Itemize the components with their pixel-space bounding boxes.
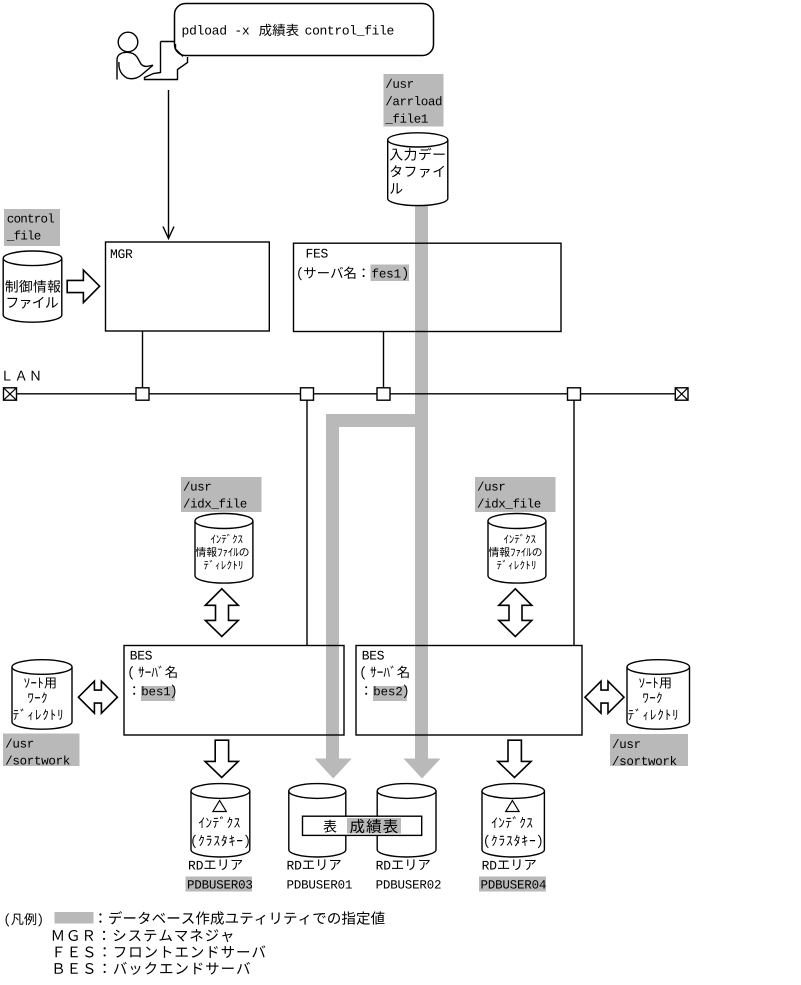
wire LAN to BES1 [306,394,308,646]
RD area label for PDBUSER03 [189,861,195,870]
double arrow idx directory <-> BES1 [205,589,238,637]
cylinder: index information file directory (right) [488,521,546,583]
cylinder: input data file [388,140,448,206]
BES1 server name text [133,686,135,695]
gray data path: vertical band from input data file down to RD area PDBUSER02 [415,206,428,759]
cylinder: sort work directory (right) [627,667,690,729]
wire LAN to BES2 [573,394,575,646]
gray highlight PDBUSER04 [479,877,546,892]
BES2 label text [363,651,369,660]
command text: seisekihyo (grade table) [259,24,271,36]
BES1 label text [131,651,137,660]
legend FES row [56,947,63,958]
RD area name PDBUSER04 [481,880,487,888]
gray label /usr/arrload_file1 [383,74,443,126]
gray highlight on seisekihyo [347,818,401,834]
sort work text (left) [24,678,29,688]
FES server name text [298,267,302,281]
double arrow idx directory <-> BES2 [499,589,532,637]
LAN tap node at FES [377,388,390,400]
cluster key triangle in RD area PDBUSER04 [506,801,519,812]
RD area name PDBUSER02 [377,880,383,888]
LAN tap node at BES1 [301,388,314,400]
cylinder: control information file [3,258,62,322]
person icon head [118,32,138,52]
LAN label [4,371,10,381]
cylinder: index information file directory (left) [195,521,253,583]
index text in RD area PDBUSER03 [199,817,204,828]
RD area name PDBUSER01 [287,880,293,888]
table seisekihyo text [323,820,336,833]
RD area label for PDBUSER02 [377,861,383,870]
hollow arrow BES2 -> RD area PDBUSER04 [498,740,531,777]
wire MGR to LAN [142,331,144,394]
legend BES row [55,963,63,974]
index directory text (right) [504,535,508,544]
legend swatch description [99,913,101,922]
LAN terminator right [675,388,688,400]
terminal console at person [145,42,188,80]
index text in RD area PDBUSER04 [492,817,497,828]
gray label /usr/sortwork (right) [610,734,688,766]
gray data path arrowhead above RD area PDBUSER01 [315,759,352,779]
box: table seisekihyo spanning PDBUSER01/PDBUSER02 [303,816,422,835]
cylinder: RD area PDBUSER03 [191,791,250,857]
gray label /usr/idx_file (left) [181,477,262,512]
person icon body and arm [117,52,153,79]
input data file text [390,149,403,161]
box BES2 [356,646,582,736]
wire: arrow from operator down to MGR [168,90,170,238]
speech bubble [175,4,434,56]
gray highlight PDBUSER03 [186,877,253,892]
FES label text [307,249,313,258]
gray highlight bes1 [141,686,175,701]
box BES1 [124,646,344,736]
cluster key triangle in RD area PDBUSER03 [213,801,226,812]
LAN tap node at BES2 [568,388,581,400]
LAN terminator left [4,388,17,400]
cylinder: sort work directory (left) [12,667,72,729]
gray label /usr/idx_file (right) [475,477,556,512]
gray data path: branch elbow to left band [326,414,428,427]
legend MGR row [53,930,63,941]
BES2 server name text [365,686,367,695]
wire FES to LAN [383,332,385,394]
gray label control_file [4,209,60,246]
RD area label for PDBUSER04 [483,861,489,870]
wire: LAN bus [4,393,688,395]
block arrow control file -> MGR [67,270,99,303]
box FES [294,243,562,331]
double arrow BES2 <-> sort directory [585,681,624,713]
control cylinder text [5,280,17,293]
legend heading (hanrei) [6,913,10,926]
command text: pdload -x [183,27,189,37]
gray highlight bes2 [373,686,407,701]
sort work text (right) [639,678,644,688]
LAN tap node at MGR [136,388,149,400]
command text: control_file [305,28,311,35]
index directory text (left) [211,535,215,544]
box MGR [106,242,270,331]
gray data path: left vertical band down to RD area PDBUSER01 [326,414,339,759]
gray data path arrowhead above RD area PDBUSER02 [404,759,441,779]
speech bubble tail [176,44,184,57]
legend gray swatch [54,912,93,924]
hollow arrow BES1 -> RD area PDBUSER03 [205,740,238,777]
cylinder: RD area PDBUSER01 [289,791,346,857]
cylinder: RD area PDBUSER02 [377,791,436,857]
RD area label for PDBUSER01 [288,861,294,870]
gray highlight fes1 [370,265,408,282]
double arrow sort directory <-> BES1 [78,681,117,713]
cylinder: RD area PDBUSER04 [482,791,544,857]
gray label /usr/sortwork (left) [3,734,80,767]
RD area name PDBUSER03 [188,880,194,888]
